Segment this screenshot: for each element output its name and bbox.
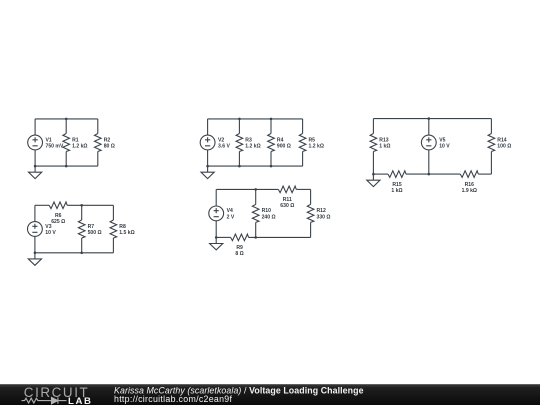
junction C1 bottom node [65, 165, 68, 168]
resistor R3 [236, 134, 261, 152]
svg-text:R1: R1 [72, 137, 79, 143]
voltage source V4 [209, 206, 235, 221]
footer bar [0, 384, 540, 405]
svg-text:900 Ω: 900 Ω [277, 143, 291, 149]
wire C5 R10 top lead [255, 189, 257, 204]
svg-text:R3: R3 [245, 137, 252, 143]
svg-text:500 Ω: 500 Ω [88, 230, 102, 236]
svg-text:8 Ω: 8 Ω [235, 251, 243, 257]
wire C4 R8 bottom lead [112, 238, 114, 253]
resistor R12 [307, 204, 330, 222]
wire C1 R1 bottom lead [65, 152, 67, 167]
wire C2 left branch [207, 119, 209, 166]
wire C4 top right segment [67, 204, 113, 206]
wire C4 R7 bottom lead [81, 238, 83, 253]
junction C4 top node [80, 204, 83, 207]
wire C5 bottom left segment [216, 236, 230, 238]
junction C4 ground node [34, 252, 37, 255]
wire C2 R5 top lead [302, 119, 304, 134]
wire C4 bottom rail [35, 252, 114, 254]
resistor R11 [278, 186, 296, 209]
svg-text:100 Ω: 100 Ω [497, 143, 511, 149]
resistor R16 [460, 171, 478, 194]
wire C2 R3 top lead [238, 119, 240, 134]
voltage source V1 [28, 135, 64, 150]
wire C5 R10 bottom lead [255, 222, 257, 237]
svg-text:V5: V5 [439, 137, 445, 143]
ground for circuit 4 [28, 253, 41, 265]
svg-text:10 V: 10 V [439, 143, 450, 149]
svg-text:R8: R8 [119, 224, 126, 230]
svg-text:80 Ω: 80 Ω [104, 143, 115, 149]
CircuitLab logo diode [43, 397, 67, 403]
wire C2 top rail [208, 118, 303, 120]
svg-text:1.5 kΩ: 1.5 kΩ [119, 230, 134, 236]
svg-text:1.2 kΩ: 1.2 kΩ [72, 143, 87, 149]
wire C1 R2 bottom lead [97, 152, 99, 167]
wire C5 R12 top lead [310, 189, 312, 204]
svg-text:330 Ω: 330 Ω [317, 214, 331, 220]
wire C3 bottom right segment [478, 173, 491, 175]
wire C1 bottom rail [35, 165, 98, 167]
resistor R9 [231, 234, 249, 257]
wire C5 top right segment [296, 188, 310, 190]
wire C3 bottom middle segment [406, 173, 460, 175]
svg-text:R16: R16 [465, 182, 475, 188]
resistor R7 [78, 220, 101, 238]
svg-text:R12: R12 [317, 208, 327, 214]
svg-text:750 mV: 750 mV [46, 143, 64, 149]
wire C5 top left segment [216, 188, 278, 190]
junction C5 top node [254, 188, 257, 191]
ground for circuit 1 [29, 166, 42, 179]
svg-text:240 Ω: 240 Ω [262, 214, 276, 220]
junction C2 ground node [206, 165, 209, 168]
svg-text:V2: V2 [218, 137, 224, 143]
svg-text:625 Ω: 625 Ω [51, 219, 65, 225]
resistor R5 [299, 134, 324, 152]
svg-text:R4: R4 [277, 137, 284, 143]
wire C3 middle branch [428, 119, 430, 175]
junction C1 top node [65, 118, 68, 121]
svg-text:1 kΩ: 1 kΩ [379, 143, 390, 149]
svg-text:R11: R11 [283, 197, 292, 203]
svg-text:1.9 kΩ: 1.9 kΩ [462, 188, 477, 194]
wire C2 R4 bottom lead [270, 152, 272, 167]
resistor R13 [370, 134, 390, 152]
junction C2 node R4 top [270, 118, 273, 121]
wire C1 left branch [34, 119, 36, 166]
junction C3 bottom middle node [428, 173, 431, 176]
wire C4 top left segment [35, 204, 49, 206]
resistor R10 [252, 204, 275, 222]
resistor R4 [268, 134, 291, 152]
wire C1 R1 top lead [65, 119, 67, 134]
svg-text:http://circuitlab.com/c2ean9f: http://circuitlab.com/c2ean9f [114, 394, 232, 404]
wire C3 bottom left segment [373, 173, 388, 175]
wire C2 R3 bottom lead [238, 152, 240, 167]
svg-text:R10: R10 [262, 208, 272, 214]
resistor R1 [63, 134, 88, 152]
junction C2 node R3 top [238, 118, 241, 121]
wire C1 R2 top lead [97, 119, 99, 134]
svg-text:3.6 V: 3.6 V [218, 143, 230, 149]
svg-text:R2: R2 [104, 137, 111, 143]
wire C4 left branch [34, 205, 36, 253]
svg-text:LAB: LAB [68, 396, 93, 405]
svg-text:R15: R15 [392, 182, 402, 188]
resistor R2 [95, 134, 115, 152]
junction C5 bottom node [254, 236, 257, 239]
voltage source V2 [200, 135, 230, 150]
svg-text:V4: V4 [227, 208, 233, 214]
junction C5 ground node [215, 236, 218, 239]
wire C1 top rail [35, 118, 98, 120]
svg-text:R9: R9 [236, 245, 243, 251]
svg-text:1.2 kΩ: 1.2 kΩ [245, 143, 260, 149]
junction C4 bottom node [80, 252, 83, 255]
wire C3 R14 bottom lead [490, 152, 492, 175]
resistor R14 [488, 134, 511, 152]
wire C4 R8 top lead [112, 205, 114, 220]
svg-text:630 Ω: 630 Ω [280, 203, 294, 209]
wire C5 bottom right segment [249, 236, 311, 238]
svg-text:R6: R6 [55, 213, 62, 219]
svg-text:1 kΩ: 1 kΩ [391, 188, 402, 194]
voltage source V3 [28, 222, 57, 237]
junction C1 ground node [34, 165, 37, 168]
junction C3 top node [428, 117, 431, 120]
wire C5 left branch [215, 189, 217, 237]
ground for circuit 5 [210, 237, 223, 250]
ground for circuit 3 [367, 174, 380, 187]
svg-text:10 V: 10 V [45, 230, 56, 236]
svg-text:R13: R13 [379, 137, 389, 143]
wire C2 R5 bottom lead [302, 152, 304, 167]
wire C5 R12 bottom lead [310, 222, 312, 237]
svg-text:R7: R7 [88, 224, 95, 230]
junction C3 ground node [372, 173, 375, 176]
svg-text:R14: R14 [497, 137, 507, 143]
wire C4 R7 top lead [81, 205, 83, 220]
CircuitLab logo resistor zigzag [22, 398, 43, 403]
resistor R15 [388, 171, 406, 194]
wire C2 R4 top lead [270, 119, 272, 134]
svg-text:R5: R5 [309, 137, 316, 143]
wire C3 R13 top lead [372, 119, 374, 134]
svg-text:2 V: 2 V [227, 214, 235, 220]
resistor R6 [49, 202, 67, 225]
wire C2 bottom rail [208, 165, 303, 167]
svg-text:1.2 kΩ: 1.2 kΩ [309, 143, 324, 149]
svg-text:V1: V1 [46, 137, 52, 143]
wire C3 top rail [373, 118, 491, 120]
wire C3 R13 bottom lead [372, 152, 374, 175]
voltage source V5 [421, 135, 450, 150]
ground for circuit 2 [201, 166, 214, 179]
wire C3 R14 top lead [490, 119, 492, 134]
resistor R8 [110, 220, 135, 238]
junction C2 node R3 bottom [238, 165, 241, 168]
junction C2 node R4 bottom [270, 165, 273, 168]
